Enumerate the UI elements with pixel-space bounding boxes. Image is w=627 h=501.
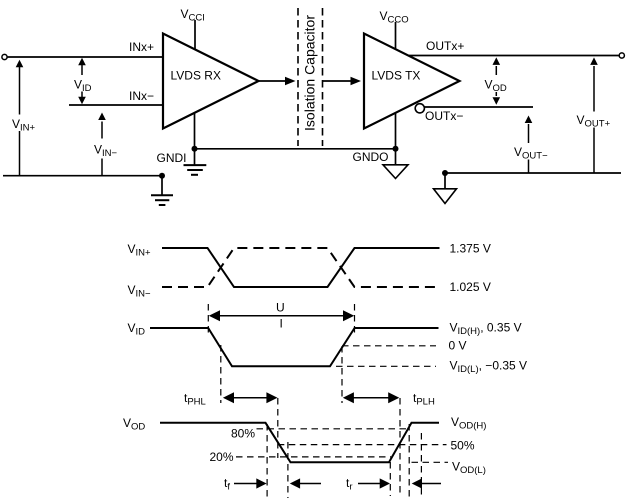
guide 20 percent dashed bbox=[236, 456, 391, 458]
svg-text:VIN−: VIN− bbox=[94, 143, 118, 160]
svg-text:LVDS TX: LVDS TX bbox=[372, 69, 421, 83]
op-amp U1 LVDS RX bbox=[163, 34, 259, 129]
guide vertical fall 80 cross bbox=[266, 424, 268, 498]
svg-text:VOD(L): VOD(L) bbox=[452, 460, 486, 477]
svg-text:VOD: VOD bbox=[123, 416, 145, 433]
svg-text:INx+: INx+ bbox=[129, 40, 154, 54]
guide vertical rise 50 cross bbox=[399, 398, 401, 495]
junction node output rail bbox=[442, 170, 448, 176]
svg-text:VIN+: VIN+ bbox=[12, 117, 36, 134]
guide VID(L) dashed bbox=[336, 365, 436, 367]
svg-text:VID: VID bbox=[128, 321, 146, 338]
svg-text:GNDO: GNDO bbox=[353, 150, 389, 164]
guide vertical rise 80 cross bbox=[408, 424, 410, 497]
isolation barrier dashed line right bbox=[322, 8, 324, 146]
input terminal bbox=[2, 54, 7, 59]
svg-text:VIN+: VIN+ bbox=[128, 242, 152, 259]
isolation barrier dashed line left bbox=[297, 8, 299, 146]
svg-text:VOD: VOD bbox=[485, 78, 507, 95]
svg-text:INx−: INx− bbox=[129, 89, 154, 103]
tr measurement arrow bbox=[358, 478, 390, 488]
svg-text:0 V: 0 V bbox=[449, 339, 467, 353]
guide vertical fall start bbox=[207, 304, 209, 336]
guide vertical rise zero-cross bbox=[341, 346, 343, 403]
svg-text:tPLH: tPLH bbox=[413, 391, 435, 408]
guide VOD(L) dashed bbox=[412, 461, 449, 463]
ground output rail chassis bbox=[434, 173, 457, 204]
guide 50 percent dashed bbox=[278, 444, 447, 446]
tf opposing arrow bbox=[290, 478, 321, 488]
VOUT+ measurement arrow bbox=[590, 57, 598, 173]
guide vertical rise end bbox=[354, 304, 356, 336]
svg-text:GNDI: GNDI bbox=[157, 151, 187, 165]
guide vertical fall 50 cross bbox=[277, 398, 279, 458]
svg-text:VOUT−: VOUT− bbox=[514, 145, 548, 162]
svg-text:VIN−: VIN− bbox=[128, 283, 152, 300]
ground GNDI bbox=[184, 149, 207, 175]
junction node input rail bbox=[159, 173, 165, 179]
waveform VIN- dashed bbox=[162, 248, 441, 287]
waveform VID bbox=[150, 328, 439, 366]
tf measurement arrow bbox=[234, 478, 267, 488]
op-amp U2 LVDS TX bbox=[364, 34, 460, 129]
junction node GNDO bbox=[393, 146, 399, 152]
tPLH measurement arrow bbox=[343, 392, 400, 403]
waveform VIN+ solid bbox=[162, 248, 440, 287]
svg-text:1.025 V: 1.025 V bbox=[450, 280, 491, 294]
tr opposing arrow bbox=[412, 478, 441, 488]
wire bottom input rail bbox=[3, 175, 162, 177]
guide vertical rise 20 cross bbox=[389, 462, 391, 496]
svg-text:LVDS RX: LVDS RX bbox=[171, 69, 221, 83]
VIN+ measurement arrow bbox=[16, 60, 24, 176]
svg-text:VID(L), −0.35 V: VID(L), −0.35 V bbox=[450, 359, 528, 376]
guide vertical settle bbox=[420, 433, 422, 496]
junction node GNDI bbox=[192, 146, 198, 152]
guide vertical fall zero-cross bbox=[220, 345, 222, 403]
ground input rail bbox=[151, 176, 173, 205]
wire GNDI-GNDO rail bbox=[195, 148, 396, 150]
svg-text:80%: 80% bbox=[231, 427, 255, 441]
guide 0V dashed bbox=[342, 345, 436, 347]
svg-text:I: I bbox=[280, 316, 283, 330]
wire TX input with arrow bbox=[323, 77, 362, 85]
svg-text:VCCO: VCCO bbox=[380, 9, 409, 26]
svg-text:VID: VID bbox=[74, 78, 92, 95]
power VCCO stem bbox=[395, 22, 397, 50]
wire OUTx+ bbox=[409, 55, 619, 57]
svg-text:tPHL: tPHL bbox=[184, 391, 206, 408]
wire RX output with arrow bbox=[259, 77, 296, 85]
VOUT- measurement arrow bbox=[525, 116, 533, 174]
svg-text:OUTx−: OUTx− bbox=[425, 109, 463, 123]
VID measurement arrows bbox=[78, 58, 86, 105]
svg-text:50%: 50% bbox=[451, 439, 475, 453]
svg-text:tf: tf bbox=[224, 476, 230, 493]
guide vertical fall 20 cross bbox=[287, 442, 289, 498]
ground GNDO chassis bbox=[383, 149, 408, 179]
svg-text:Isolation Capacitor: Isolation Capacitor bbox=[302, 15, 318, 131]
svg-text:U: U bbox=[276, 301, 285, 315]
svg-text:20%: 20% bbox=[209, 450, 233, 464]
output terminal bbox=[619, 53, 624, 58]
wire GNDO stem from TX bbox=[395, 113, 397, 149]
svg-text:1.375 V: 1.375 V bbox=[450, 242, 491, 256]
UI measurement arrow bbox=[209, 310, 354, 321]
power VCCI stem bbox=[194, 20, 196, 50]
svg-text:VID(H), 0.35 V: VID(H), 0.35 V bbox=[450, 321, 522, 338]
svg-text:VOUT+: VOUT+ bbox=[577, 113, 611, 130]
svg-text:VCCI: VCCI bbox=[181, 7, 205, 24]
VOD measurement arrows bbox=[493, 57, 501, 104]
wire INx+ bbox=[7, 56, 163, 58]
waveform VOD bbox=[160, 423, 439, 463]
tPHL measurement arrow bbox=[223, 392, 278, 403]
wire bottom output rail bbox=[445, 172, 621, 174]
wire GNDI stem from RX bbox=[194, 112, 196, 149]
guide 80 percent dashed bbox=[257, 428, 410, 430]
inversion bubble OUTx- bbox=[415, 104, 424, 113]
svg-text:VOD(H): VOD(H) bbox=[451, 415, 486, 432]
wire INx- bbox=[69, 104, 163, 106]
wire OUTx- bbox=[424, 106, 533, 108]
svg-text:OUTx+: OUTx+ bbox=[426, 39, 464, 53]
VIN- measurement arrow bbox=[98, 113, 106, 176]
svg-text:tr: tr bbox=[346, 476, 353, 493]
